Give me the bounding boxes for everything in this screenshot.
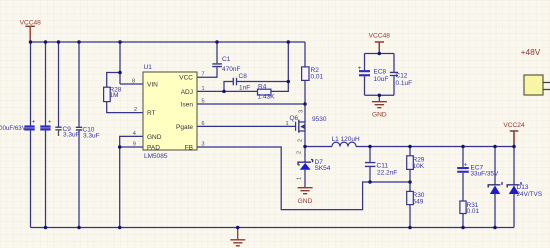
svg-text:PAD: PAD — [147, 145, 160, 152]
svg-text:+: + — [48, 120, 52, 126]
wire EC7 R31 branch — [462, 147, 464, 228]
wire vertical VIN branch — [120, 42, 143, 84]
svg-text:Isen: Isen — [181, 102, 194, 109]
svg-text:2: 2 — [297, 151, 303, 154]
wire FB pin 3 feedback path — [197, 147, 410, 210]
capacitor C8 plates — [233, 78, 236, 85]
op-amp U1 body (LM5085 IC box) — [143, 72, 197, 150]
svg-text:+48V: +48V — [521, 47, 541, 57]
svg-text:0.01: 0.01 — [467, 208, 480, 215]
svg-text:1.43K: 1.43K — [258, 94, 276, 101]
svg-text:EC8: EC8 — [374, 69, 387, 76]
wire R28 bottom to RT pin 2 — [107, 102, 143, 113]
svg-text:ADJ: ADJ — [181, 89, 193, 96]
svg-text:VCC48: VCC48 — [369, 33, 391, 40]
svg-text:3: 3 — [299, 110, 305, 113]
wire C1 branch / VCC pin 7 — [197, 42, 217, 77]
power VCC48 left symbol — [25, 26, 35, 42]
svg-text:RT: RT — [147, 110, 156, 117]
svg-text:VCC48: VCC48 — [20, 20, 42, 27]
svg-text:00uF/63V: 00uF/63V — [0, 125, 27, 132]
wire Pgate pin 6 — [197, 125, 296, 127]
diode D13a — [488, 182, 502, 187]
svg-text:Pgate: Pgate — [176, 124, 193, 131]
capacitor C9 plates — [55, 126, 61, 128]
wire D13a branch — [494, 147, 496, 228]
svg-text:2: 2 — [298, 139, 304, 142]
inductor L1 — [332, 142, 356, 146]
resistor R30 — [407, 191, 414, 204]
svg-text:+: + — [32, 120, 36, 126]
svg-text:6: 6 — [202, 121, 205, 127]
svg-text:1M: 1M — [110, 92, 119, 99]
svg-text:1: 1 — [202, 86, 205, 92]
resistor R29 — [407, 156, 414, 170]
wire bottom ground rail — [31, 227, 515, 229]
wire R29 R30 divider — [409, 147, 411, 228]
ground symbol under D7 — [298, 188, 313, 194]
resistor R31 — [460, 201, 466, 214]
svg-text:1: 1 — [297, 177, 303, 180]
capacitor EC8 electrolytic plates — [359, 70, 370, 76]
svg-text:7: 7 — [202, 72, 205, 78]
wire vertical C9 branch — [58, 42, 60, 127]
capacitor C10 plates — [76, 127, 82, 130]
svg-text:GND: GND — [298, 198, 313, 205]
capacitor cap1 electrolytic plates — [24, 125, 34, 130]
svg-text:5: 5 — [202, 99, 205, 105]
resistor R4 — [258, 89, 271, 95]
wire vertical cap2 branch — [45, 42, 47, 228]
svg-text:R4: R4 — [258, 83, 267, 90]
svg-text:3.3uF: 3.3uF — [63, 132, 80, 139]
svg-text:D13: D13 — [517, 184, 529, 191]
svg-text:VCC24: VCC24 — [503, 122, 525, 129]
pin names inside U1 — [147, 75, 193, 152]
ground symbol under EC8 C12 — [372, 102, 387, 108]
svg-text:Q6: Q6 — [290, 115, 299, 122]
wire C8 branch — [224, 82, 288, 92]
svg-text:10uF: 10uF — [374, 76, 389, 83]
ground symbol bottom rail — [230, 228, 245, 246]
svg-text:2: 2 — [134, 107, 137, 113]
svg-text:VIN: VIN — [147, 82, 158, 89]
labels navy component text — [0, 56, 542, 215]
svg-text:LM5085: LM5085 — [144, 153, 168, 160]
svg-text:33uF/35V: 33uF/35V — [471, 170, 499, 177]
svg-text:FB: FB — [185, 145, 193, 152]
svg-text:0.1uF: 0.1uF — [396, 80, 413, 87]
connector P1 +48V — [524, 75, 543, 95]
svg-text:10K: 10K — [413, 163, 425, 170]
wire vertical cap1 branch — [30, 42, 32, 228]
wire top VCC48 bus — [31, 41, 306, 43]
power VCC48 mid symbol — [375, 42, 384, 54]
svg-text:470nF: 470nF — [222, 66, 240, 73]
svg-text:549: 549 — [413, 198, 424, 205]
capacitor EC7 electrolytic plates — [457, 167, 469, 173]
power VCC24 symbol — [510, 131, 519, 147]
capacitor cap2 electrolytic plates — [40, 125, 50, 130]
svg-text:3: 3 — [202, 142, 205, 148]
wire Isen pin 5 — [197, 103, 305, 105]
diode D7 — [298, 160, 313, 165]
svg-text:1: 1 — [286, 121, 289, 127]
svg-text:24V/TVS: 24V/TVS — [517, 191, 543, 198]
svg-text:C11: C11 — [377, 162, 389, 169]
svg-text:C1: C1 — [222, 56, 231, 63]
wire R28 top link — [107, 73, 120, 88]
wire D7 branch — [304, 147, 306, 188]
svg-text:GND: GND — [372, 111, 387, 118]
resistor R2 — [302, 67, 309, 81]
svg-text:GND: GND — [147, 134, 162, 141]
wire EC8 C12 network — [365, 43, 395, 102]
pin numbers — [132, 72, 305, 180]
power net labels red — [20, 20, 541, 205]
svg-text:8: 8 — [132, 79, 135, 85]
transistor Q2 symbol (Q6 PMOS) — [296, 120, 305, 133]
capacitor C1 plates — [212, 64, 222, 67]
svg-text:L1 120uH: L1 120uH — [332, 136, 360, 143]
diode D13b — [507, 182, 521, 187]
wire vertical C10 branch — [78, 42, 80, 228]
svg-text:U1: U1 — [144, 64, 153, 71]
svg-text:3.3uF: 3.3uF — [83, 133, 100, 140]
svg-text:+: + — [464, 162, 468, 169]
svg-text:VCC: VCC — [179, 75, 193, 82]
wire output rail — [305, 146, 514, 148]
capacitor C12 plates — [390, 72, 398, 75]
svg-text:+: + — [358, 65, 362, 72]
svg-text:22.2nF: 22.2nF — [377, 169, 397, 176]
svg-text:1nF: 1nF — [239, 85, 250, 92]
wire C11 branch — [369, 147, 371, 183]
resistor R28 — [104, 87, 111, 101]
wire D13b branch — [513, 131, 515, 228]
svg-text:9: 9 — [133, 142, 136, 148]
svg-text:C12: C12 — [396, 72, 408, 79]
svg-text:4: 4 — [133, 131, 136, 137]
wire PAD pin 9 — [120, 146, 143, 148]
svg-text:0.01: 0.01 — [311, 73, 324, 80]
svg-text:SK54: SK54 — [315, 165, 331, 172]
svg-text:9530: 9530 — [312, 116, 327, 123]
wire GND pin 4 — [120, 136, 143, 227]
svg-text:C8: C8 — [239, 73, 248, 80]
capacitor C11 plates — [365, 163, 376, 167]
wire ADJ pin 1 with R4 — [197, 42, 288, 91]
wire R2 branch from bus — [304, 42, 306, 147]
